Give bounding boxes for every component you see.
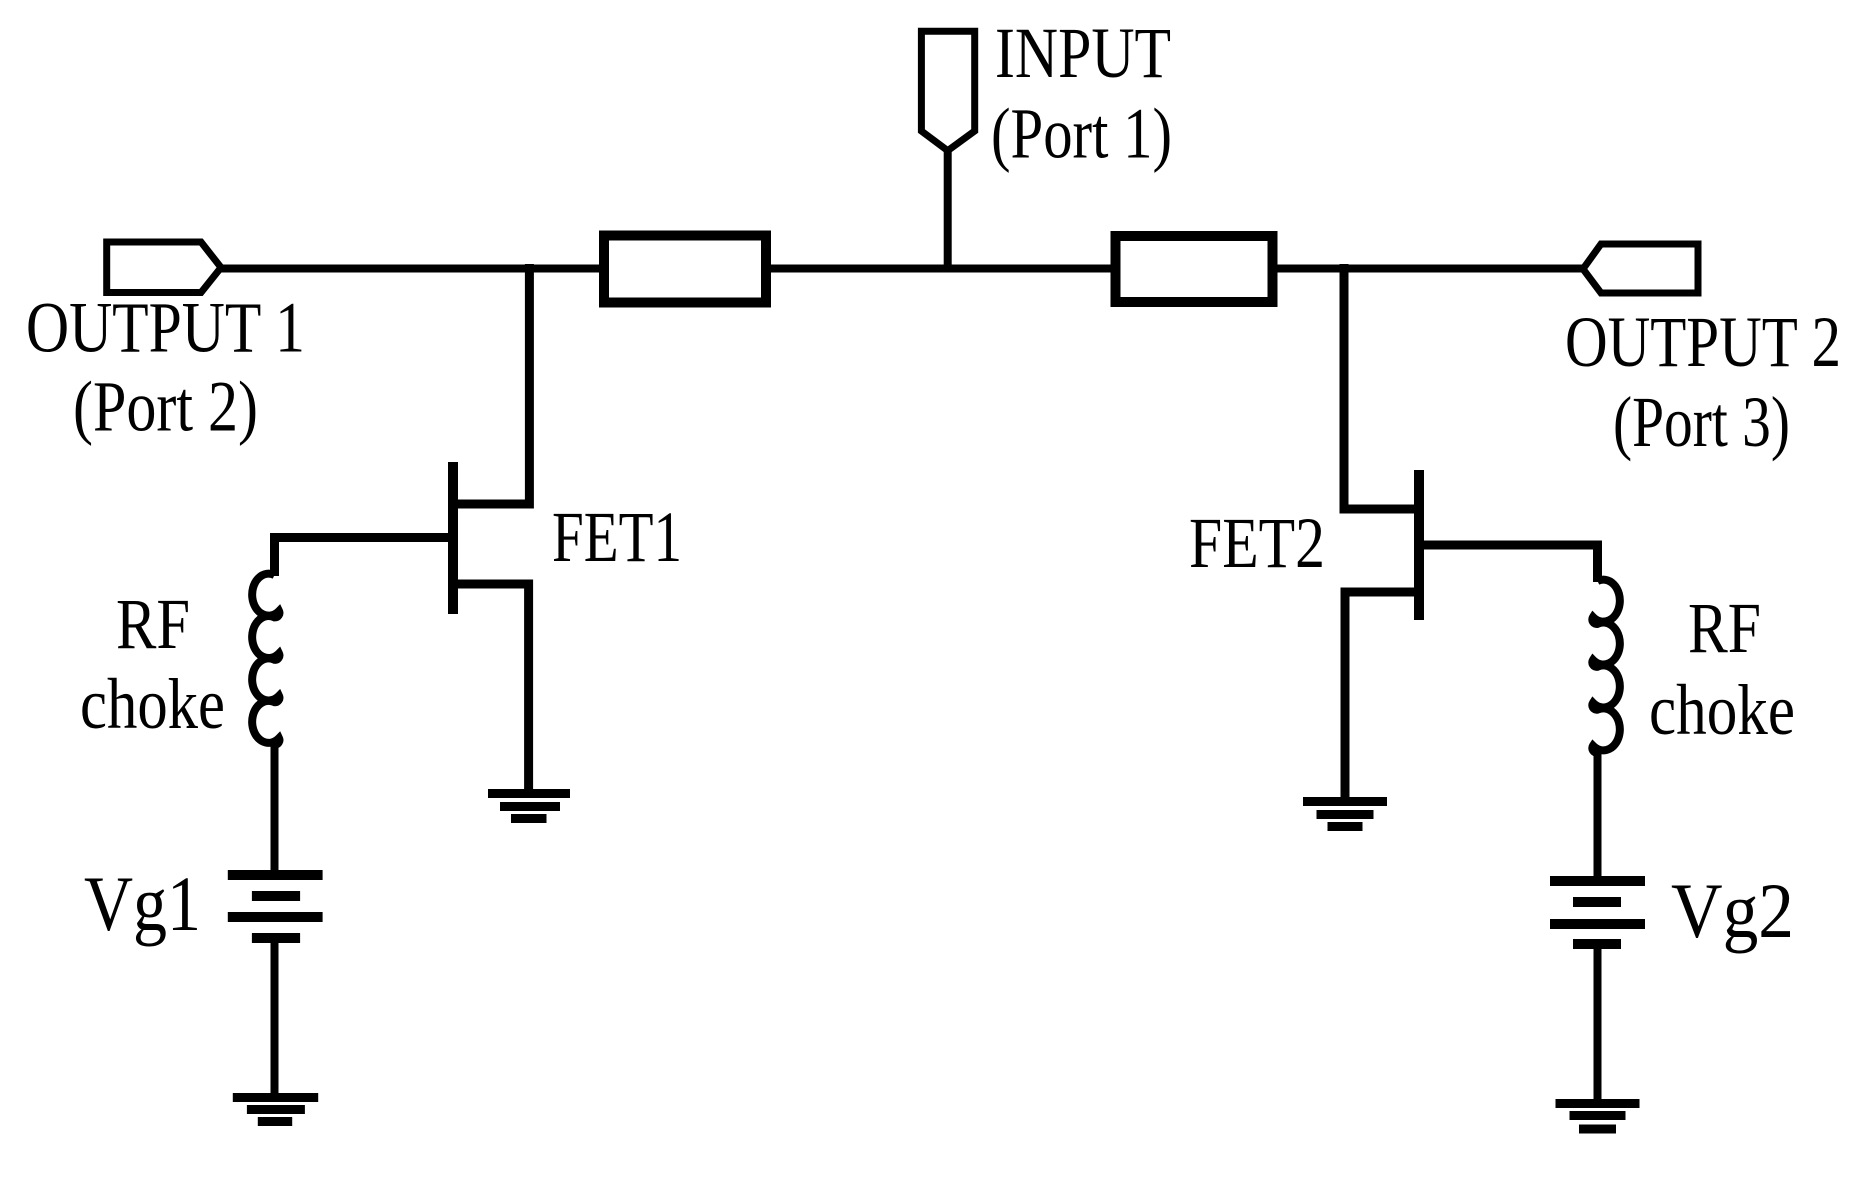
drain wire bbox=[1344, 264, 1419, 509]
svg-text:RF: RF bbox=[116, 584, 190, 664]
channel bar bbox=[448, 462, 458, 614]
battery Vg1 bbox=[228, 875, 323, 938]
wire choke2 to battery bbox=[1594, 753, 1602, 881]
channel bar bbox=[1414, 470, 1424, 620]
svg-text:FET2: FET2 bbox=[1189, 503, 1325, 583]
port P3 OUTPUT 2 bbox=[1583, 244, 1698, 293]
svg-text:Vg1: Vg1 bbox=[84, 860, 201, 947]
inductor RF choke 1 bbox=[252, 574, 279, 745]
svg-text:(Port 2): (Port 2) bbox=[73, 367, 258, 447]
ground FET2 source bbox=[1303, 802, 1387, 827]
svg-text:INPUT: INPUT bbox=[995, 13, 1171, 93]
wire battery2 to ground bbox=[1594, 944, 1602, 1103]
wire input drop bbox=[944, 150, 952, 269]
ground FET1 source bbox=[488, 794, 570, 819]
transmission line TL1 bbox=[604, 236, 766, 303]
svg-text:OUTPUT 2: OUTPUT 2 bbox=[1565, 302, 1841, 382]
inductor RF choke 2 bbox=[1592, 580, 1620, 753]
battery Vg2 bbox=[1550, 881, 1645, 944]
source wire bbox=[1345, 592, 1419, 801]
ground battery Vg1 bbox=[233, 1098, 318, 1122]
gate wire bbox=[1419, 545, 1598, 582]
wire main left bbox=[221, 265, 604, 273]
gate wire bbox=[275, 538, 454, 577]
svg-text:(Port 1): (Port 1) bbox=[991, 94, 1172, 174]
port P2 OUTPUT 1 bbox=[107, 242, 221, 293]
wire main center bbox=[766, 265, 1115, 273]
ground battery Vg2 bbox=[1556, 1104, 1640, 1130]
transistor FET2 bbox=[1344, 264, 1598, 801]
svg-text:(Port 3): (Port 3) bbox=[1613, 382, 1790, 462]
svg-text:FET1: FET1 bbox=[552, 497, 682, 577]
port P1 INPUT bbox=[921, 31, 974, 150]
svg-text:choke: choke bbox=[1649, 670, 1795, 750]
svg-text:Vg2: Vg2 bbox=[1671, 867, 1794, 954]
transmission line TL2 bbox=[1116, 236, 1273, 302]
drain wire bbox=[453, 264, 529, 504]
wire battery1 to ground bbox=[271, 938, 279, 1097]
wire main right bbox=[1273, 265, 1584, 273]
svg-text:RF: RF bbox=[1688, 588, 1761, 668]
source wire bbox=[453, 584, 529, 793]
svg-text:choke: choke bbox=[80, 664, 225, 744]
svg-text:OUTPUT 1: OUTPUT 1 bbox=[26, 288, 305, 368]
transistor FET1 bbox=[275, 264, 530, 793]
wire choke1 to battery bbox=[271, 745, 279, 875]
